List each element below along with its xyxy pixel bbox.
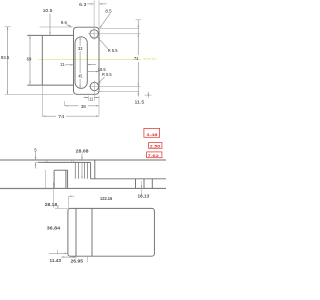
svg-text:74: 74 — [58, 114, 65, 119]
svg-text:36.84: 36.84 — [47, 225, 61, 230]
svg-text:28.18: 28.18 — [45, 202, 58, 207]
svg-text:11.5: 11.5 — [135, 100, 146, 105]
svg-text:21: 21 — [60, 62, 65, 67]
svg-text:10.5: 10.5 — [43, 8, 54, 13]
svg-text:93.5: 93.5 — [1, 55, 10, 60]
svg-text:center line: center line — [143, 57, 157, 61]
svg-text:R 5.5: R 5.5 — [108, 48, 118, 53]
svg-text:33: 33 — [78, 46, 83, 51]
svg-text:16.13: 16.13 — [138, 194, 150, 199]
svg-text:8.5: 8.5 — [105, 8, 112, 13]
svg-text:R 0.5: R 0.5 — [102, 72, 112, 77]
svg-text:12: 12 — [89, 97, 93, 102]
svg-text:45: 45 — [78, 73, 83, 78]
svg-text:38: 38 — [81, 104, 86, 109]
svg-text:74: 74 — [134, 56, 139, 61]
svg-text:6.3: 6.3 — [79, 2, 87, 7]
svg-text:9.6: 9.6 — [61, 20, 68, 25]
svg-text:2.50: 2.50 — [150, 144, 161, 149]
svg-text:69: 69 — [27, 57, 32, 62]
svg-text:123.16: 123.16 — [100, 196, 113, 201]
svg-text:26.95: 26.95 — [71, 258, 84, 263]
svg-text:3.48: 3.48 — [147, 132, 159, 137]
svg-text:28.08: 28.08 — [76, 148, 89, 153]
svg-text:11.43: 11.43 — [50, 258, 62, 263]
svg-text:7.62: 7.62 — [148, 153, 160, 158]
